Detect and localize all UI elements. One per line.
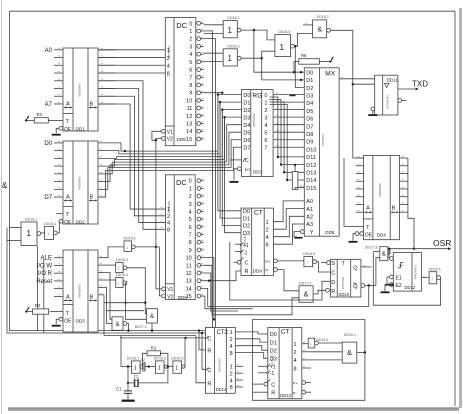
svg-text:12: 12: [186, 114, 192, 120]
svg-text:D12: D12: [306, 163, 316, 169]
wire DD12 out: [422, 276, 430, 278]
wire DD5 out3 to DD18.3: [204, 52, 223, 54]
svg-text:V2: V2: [167, 137, 173, 143]
svg-text:A: A: [66, 102, 70, 108]
svg-text:3: 3: [264, 115, 267, 121]
svg-text:К580ВА86: К580ВА86: [378, 183, 382, 197]
svg-text:Reset: Reset: [36, 279, 52, 285]
svg-text:D2: D2: [270, 348, 277, 354]
svg-text:V1: V1: [167, 287, 173, 293]
svg-text:P+: P+: [293, 381, 299, 386]
svg-text:D3: D3: [243, 115, 250, 121]
svg-text:1: 1: [431, 276, 433, 280]
gate DD19.2: [313, 15, 331, 38]
wire DD18.4 out to MX D2: [294, 45, 304, 88]
svg-text:P+: P+: [265, 259, 271, 264]
DD10 Q stub: [361, 265, 372, 267]
wire OSR drop to DD12: [388, 248, 390, 259]
svg-text:8: 8: [189, 240, 192, 246]
svg-text:1: 1: [126, 246, 128, 250]
wire feeds to MX D11-D14: [270, 97, 305, 181]
wire bus risers to RG DD7: [218, 95, 242, 171]
DD16.2 to DD16.3 wire: [167, 365, 173, 367]
wire C1 stem: [127, 367, 129, 391]
svg-text:3: 3: [189, 202, 192, 208]
wire DD15.4 to DD17.1: [126, 303, 147, 320]
wire DD5 V2: [155, 139, 164, 289]
bus transceiver DD4 К580ВА86: [364, 155, 400, 239]
svg-text:1: 1: [158, 365, 161, 371]
svg-text:P-: P-: [265, 268, 270, 273]
wire DD1 outputs to DD5 inputs: [98, 50, 165, 73]
svg-text:D0: D0: [270, 332, 277, 338]
svg-text:CT: CT: [281, 329, 290, 336]
svg-text:D4: D4: [306, 101, 313, 107]
wire TXD: [398, 88, 419, 91]
svg-text:1: 1: [189, 29, 192, 35]
gate DD20.1: [342, 333, 357, 363]
svg-text:DD10: DD10: [339, 292, 350, 297]
svg-text:D2: D2: [306, 86, 313, 92]
wire top rail: [10, 10, 456, 12]
svg-text:&: &: [150, 314, 154, 320]
svg-text:&: &: [2, 181, 8, 190]
buffer DD15.6: [429, 267, 441, 284]
svg-text:D0: D0: [44, 141, 52, 147]
inverter DD18.2: [223, 16, 241, 38]
crystal ZQ1: [134, 374, 139, 387]
svg-text:C: C: [331, 271, 335, 277]
svg-text:D7: D7: [44, 195, 52, 201]
label D7: [44, 195, 52, 201]
svg-text:C1: C1: [116, 387, 122, 392]
wire DD10 Qbar: [365, 284, 376, 286]
svg-text:DD16.3: DD16.3: [171, 357, 183, 361]
svg-text:R: R: [271, 390, 275, 396]
svg-text:&: &: [304, 292, 309, 299]
svg-text:7: 7: [189, 233, 192, 239]
DD3 right pin stubs: [98, 256, 104, 295]
svg-text:0: 0: [189, 179, 192, 185]
wire Qbar down to rail: [368, 286, 370, 307]
DD18.1 input wires: [7, 228, 21, 241]
R1 right wire: [160, 353, 168, 366]
svg-text:DD8: DD8: [325, 230, 335, 235]
svg-text:DD15.1: DD15.1: [44, 222, 56, 226]
svg-text:&: &: [115, 322, 119, 328]
svg-text:4: 4: [189, 52, 192, 58]
wire osc feedback: [138, 367, 168, 383]
power to R2: [25, 306, 32, 312]
svg-text:E2: E2: [396, 283, 402, 289]
svg-text:B: B: [90, 295, 94, 301]
svg-text:EO: EO: [245, 167, 251, 172]
svg-text:8: 8: [265, 243, 268, 249]
sheet right shadow: [459, 8, 462, 408]
svg-text:D0: D0: [306, 70, 313, 76]
svg-text:R1: R1: [151, 345, 157, 350]
svg-text:A1: A1: [306, 207, 313, 213]
DD19.1 output wire: [127, 324, 130, 332]
svg-text:DD19.2: DD19.2: [317, 15, 329, 19]
gate DD17.2: [299, 281, 313, 302]
svg-text:R4: R4: [300, 185, 305, 189]
inverter DD18.3: [223, 44, 241, 66]
wire DD5 out0 to DD18.2: [204, 24, 223, 26]
svg-text:A: A: [366, 206, 370, 212]
svg-text:ZQ: ZQ: [134, 374, 139, 378]
wire DD7 outputs to MX D3-D10: [273, 93, 304, 147]
svg-text:R: R: [207, 381, 211, 387]
bus transceiver DD1 К580ВА86: [63, 48, 98, 133]
wire left rail: [10, 11, 211, 330]
svg-text:DC: DC: [176, 21, 187, 30]
DD20.1 in2 wire: [311, 351, 342, 353]
svg-text:&: &: [347, 348, 352, 357]
svg-text:A3: A3: [306, 222, 313, 228]
wire rail to DD10 D: [230, 242, 331, 300]
svg-text:0: 0: [264, 93, 267, 99]
DD14 C2 feed: [201, 332, 206, 370]
DD15.1 to DD2 OE wire: [57, 221, 59, 233]
svg-text:1: 1: [118, 282, 120, 286]
wire DD18.3 out: [241, 51, 275, 59]
wire DD5 out2 down: [204, 39, 216, 333]
R1 left wire: [143, 353, 148, 366]
buffer DD16.4: [308, 338, 328, 348]
svg-text:1: 1: [167, 48, 170, 54]
label TXD: [412, 79, 428, 88]
svg-text:К155ТМ2: К155ТМ2: [341, 276, 345, 289]
svg-text:К170АП55: К170АП55: [386, 95, 390, 109]
DD11 right pin: [398, 99, 407, 103]
svg-text:2: 2: [230, 337, 233, 343]
resistor R5: [299, 53, 320, 64]
wire DD3 to DD15.3: [104, 264, 116, 266]
wire DD18.2 branch to MX D0: [254, 30, 304, 72]
svg-text:D8: D8: [306, 132, 313, 138]
svg-text:7: 7: [189, 75, 192, 81]
big feedback loop: [253, 319, 365, 400]
svg-text:RG: RG: [252, 92, 262, 99]
svg-text:10: 10: [186, 98, 192, 104]
DD14 section2 output stubs: [235, 365, 243, 387]
DD2 left pin stubs: [54, 141, 63, 197]
svg-text:DD12: DD12: [405, 285, 416, 290]
DD16.1 input wire: [121, 365, 132, 367]
svg-text:D1: D1: [270, 340, 277, 346]
svg-text:D9: D9: [306, 140, 313, 146]
svg-text:DD15.2: DD15.2: [124, 237, 136, 241]
svg-text:CT: CT: [254, 210, 263, 217]
svg-text:8: 8: [167, 71, 170, 77]
wire DD19.2 out: [331, 30, 364, 158]
svg-text:C: C: [245, 158, 249, 164]
wire DD15.5 to DD10 C: [316, 262, 330, 272]
resistor R3: [34, 112, 48, 123]
svg-text:C: C: [245, 261, 249, 267]
resistor R1: [147, 345, 160, 355]
svg-text:D2: D2: [243, 224, 250, 230]
svg-text:D5: D5: [243, 130, 250, 136]
wire DD6 out10: [204, 258, 215, 321]
DD13 R wire: [253, 391, 268, 393]
wire DD5 out9: [204, 92, 224, 94]
svg-text:2: 2: [167, 56, 170, 62]
svg-text:8: 8: [189, 83, 192, 89]
wire MX Y out: [294, 232, 300, 237]
svg-text:D1: D1: [243, 100, 250, 106]
svg-text:DD15.5: DD15.5: [303, 252, 315, 256]
wire DD3 out6 down: [103, 295, 105, 336]
counter DD9 К555ИЕ7: [237, 208, 277, 275]
wire crossing h302: [104, 302, 147, 304]
svg-text:14: 14: [186, 286, 192, 292]
svg-text:C2: C2: [141, 358, 145, 362]
svg-text:DD18.4: DD18.4: [278, 30, 290, 34]
wire DD1 outputs to DD6 inputs: [98, 81, 166, 230]
svg-text:D: D: [331, 280, 335, 286]
svg-text:1: 1: [280, 43, 285, 52]
bus transceiver DD2 К580ВА86: [63, 141, 98, 226]
svg-text:DD9: DD9: [253, 268, 263, 273]
DD9 +1 -1 stubs: [235, 244, 241, 251]
svg-text:DD15.3: DD15.3: [116, 258, 128, 262]
wire DD5 out4 to DD18.3: [204, 61, 223, 63]
DD16.1 input from rail: [120, 336, 122, 367]
wire DD5 out1 to DD18.2: [204, 33, 223, 35]
svg-text:14: 14: [186, 129, 192, 135]
DD9 C stub: [234, 261, 238, 263]
svg-text:2: 2: [230, 371, 233, 377]
decoder DD6 К555ИД3: [161, 175, 204, 300]
buffer DD15.2: [124, 237, 136, 252]
svg-text:V1: V1: [167, 129, 173, 135]
wire DD3 to DD15.2: [104, 247, 124, 258]
svg-text:DD17.2: DD17.2: [299, 281, 311, 285]
DD17.3 in1 wire: [373, 251, 380, 253]
svg-text:DD4: DD4: [377, 233, 387, 238]
DD2 pin OE: [59, 219, 63, 223]
label ALE: [41, 256, 52, 262]
svg-text:+1: +1: [270, 365, 276, 371]
svg-text:DD7: DD7: [253, 169, 263, 174]
C1 ground: [122, 400, 135, 402]
svg-text:OE: OE: [64, 220, 72, 226]
DD12 E1 ground: [385, 277, 394, 286]
svg-text:1: 1: [306, 260, 308, 264]
capacitor C2: [141, 358, 149, 371]
svg-text:TXD: TXD: [412, 79, 428, 88]
label D0: [44, 141, 52, 147]
svg-text:2: 2: [293, 350, 296, 356]
DD14 R2 feed: [196, 336, 205, 383]
wire DD5 out1 down: [204, 31, 213, 331]
label A0: [45, 48, 53, 54]
DD7 pin C wire: [230, 158, 241, 160]
DD13 C wire: [253, 383, 264, 385]
wire data bus DD2 to bus: [98, 141, 233, 197]
DD3 pin OE: [52, 317, 63, 326]
wire DD14 outputs to DD13 inputs: [235, 332, 267, 358]
svg-text:12: 12: [186, 271, 192, 277]
decoder DD5 К555ИД3: [162, 18, 204, 146]
DD1 pin stubs: [54, 48, 115, 104]
svg-text:1: 1: [189, 186, 192, 192]
wire DD6 out13 to DD9 R: [204, 271, 242, 282]
svg-text:R2: R2: [35, 303, 41, 308]
svg-text:Q: Q: [353, 284, 358, 290]
svg-text:DD2: DD2: [76, 220, 86, 225]
svg-text:1: 1: [167, 207, 170, 213]
DD20.1 out wire: [357, 351, 366, 353]
power to R3: [25, 115, 34, 121]
svg-text:4: 4: [265, 235, 268, 241]
wire DD19.2 branch to DD11: [352, 83, 375, 85]
svg-text:DD11: DD11: [387, 77, 398, 82]
DD10 S wire: [321, 262, 327, 264]
svg-text:1: 1: [48, 232, 50, 236]
svg-text:1: 1: [310, 342, 312, 346]
wire DD6 out11: [204, 265, 299, 315]
svg-text:DD18.3: DD18.3: [227, 44, 239, 48]
svg-text:C: C: [207, 336, 211, 342]
svg-text:D0: D0: [243, 209, 250, 215]
label A7: [45, 102, 53, 108]
svg-text:DD18.2: DD18.2: [227, 16, 239, 20]
svg-text:1: 1: [230, 330, 233, 336]
counter DD13 К555ИЕ7: [264, 328, 306, 399]
wire DD15.4 out: [124, 283, 127, 304]
svg-text:DD13: DD13: [280, 393, 291, 398]
DD1 pin OE: [52, 126, 63, 135]
wire right rail: [454, 11, 456, 406]
junction bus dot: [124, 150, 126, 152]
wire DD15.3 out: [127, 268, 147, 314]
svg-text:D6: D6: [306, 117, 313, 123]
capacitor C1: [116, 387, 132, 400]
wire DD3 to DD15.4: [104, 279, 116, 281]
svg-text:R3: R3: [37, 112, 43, 117]
DD16.2 input wire: [148, 365, 156, 367]
svg-text:DD16.1: DD16.1: [127, 357, 139, 361]
svg-text:1: 1: [293, 342, 296, 348]
wire DD17.3 out to OSR: [388, 249, 390, 254]
wire Qbar to DD17.3: [376, 258, 380, 286]
svg-text:A0: A0: [45, 48, 53, 54]
svg-text:DD14: DD14: [216, 387, 227, 392]
svg-text:DD18.1: DD18.1: [25, 218, 37, 222]
svg-text:К155КП1: К155КП1: [321, 134, 325, 146]
DD13 +1 -1 stubs: [258, 366, 267, 373]
wire DD9 P+ to DD15.5: [277, 260, 304, 262]
svg-text:OE: OE: [64, 127, 72, 133]
buffer DD15.3: [116, 258, 128, 273]
svg-text:S: S: [331, 261, 335, 267]
svg-text:5: 5: [189, 217, 192, 223]
svg-text:&: &: [382, 252, 386, 258]
svg-text:6: 6: [189, 68, 192, 74]
wire DD15.6 out loop: [373, 252, 440, 306]
buffer DD15.5: [303, 252, 316, 267]
svg-text:2: 2: [167, 214, 170, 220]
vertical wire to rail: [38, 246, 44, 333]
D flip-flop DD10 К155ТМ2: [326, 259, 365, 297]
svg-text:1: 1: [175, 365, 178, 371]
svg-text:К580ВА86: К580ВА86: [78, 176, 82, 190]
MX Y ground bar: [295, 237, 303, 239]
DD1 pin T wire: [48, 120, 63, 122]
svg-text:5: 5: [189, 60, 192, 66]
gate DD19.1: [112, 317, 127, 331]
svg-text:DD5: DD5: [177, 137, 187, 142]
svg-text:D1: D1: [243, 216, 250, 222]
svg-text:13: 13: [186, 279, 192, 285]
wire DD9 outputs to MX A0-A3: [274, 201, 305, 244]
inverter DD16.3: [171, 357, 185, 374]
svg-text:15: 15: [186, 137, 192, 143]
svg-text:К555ИЕ19: К555ИЕ19: [217, 358, 221, 372]
wire DD6 out14 long: [204, 288, 369, 306]
svg-text:D3: D3: [306, 94, 313, 100]
svg-text:A: A: [66, 295, 70, 301]
svg-text:8: 8: [230, 351, 233, 357]
svg-text:R: R: [245, 269, 249, 275]
svg-text:1: 1: [228, 54, 233, 63]
DD13 P- stub: [306, 391, 311, 393]
svg-text:2: 2: [189, 194, 192, 200]
wire DD19.2 in1: [303, 23, 313, 25]
wire MX right pin to DD11: [339, 77, 375, 79]
svg-text:R: R: [207, 348, 211, 354]
svg-text:-1: -1: [270, 371, 275, 377]
svg-text:6: 6: [189, 225, 192, 231]
svg-text:D6: D6: [243, 138, 250, 144]
svg-text:0: 0: [189, 21, 192, 27]
svg-text:КР559ИП1: КР559ИП1: [414, 265, 418, 280]
wire DD6 out12: [204, 273, 238, 311]
svg-text:Y: Y: [310, 230, 314, 236]
svg-text:DD15.4: DD15.4: [116, 273, 128, 277]
svg-text:11: 11: [187, 106, 193, 112]
svg-text:P-: P-: [293, 390, 298, 395]
svg-text:D13: D13: [306, 171, 316, 177]
svg-text:2: 2: [189, 37, 192, 43]
wire V2 branch to DD6 V2: [159, 247, 163, 296]
DD13 output stubs: [302, 342, 311, 368]
svg-text:1: 1: [264, 100, 267, 106]
svg-text:4: 4: [293, 358, 296, 364]
inverter DD18.4: [275, 30, 295, 57]
svg-text:1: 1: [27, 229, 32, 238]
wire DD5 V1: [152, 131, 162, 140]
svg-text:4: 4: [230, 344, 233, 350]
wire DD3 out5 down: [104, 287, 112, 323]
left edge gate fragment: [2, 181, 8, 190]
DD4 pin T wire: [344, 158, 364, 226]
svg-text:11: 11: [186, 263, 192, 269]
svg-text:DD16.4: DD16.4: [316, 338, 328, 342]
DD4 pin stubs: [356, 156, 408, 212]
svg-text:D7: D7: [306, 124, 313, 130]
power at R5: [319, 56, 333, 62]
wire DD17.2 out to DD10 R: [313, 290, 326, 294]
resistor R4: [292, 172, 304, 190]
svg-text:2: 2: [265, 228, 268, 234]
svg-text:9: 9: [189, 91, 192, 97]
wire crystal left: [127, 382, 135, 384]
svg-text:1: 1: [118, 267, 120, 271]
